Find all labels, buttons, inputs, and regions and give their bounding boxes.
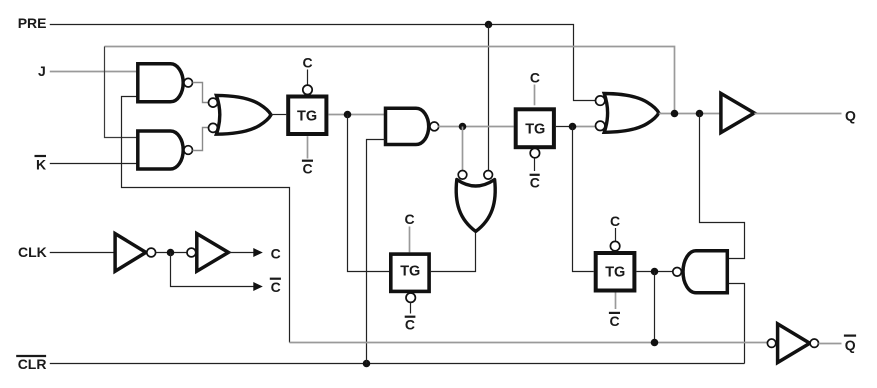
- wire Qbar internal node down to Qbar line: [654, 272, 656, 343]
- wire Qbar feedback into NAND1 bottom input: [122, 97, 290, 343]
- junction CLR node: [363, 360, 371, 368]
- svg-text:TG: TG: [605, 264, 625, 280]
- wire TG4 to NAND4 output node: [636, 271, 672, 273]
- svg-text:CLK: CLK: [18, 244, 47, 260]
- nand gate G4 (left facing): [683, 251, 727, 293]
- junction PRE node: [485, 21, 493, 29]
- svg-text:C: C: [271, 246, 281, 262]
- wire slave node down to TG4: [573, 127, 594, 272]
- wire CLK input: [50, 252, 115, 254]
- wire INV2 out to C arrow: [228, 252, 253, 254]
- svg-text:TG: TG: [525, 121, 545, 137]
- arrow C: [253, 248, 262, 257]
- wire PRE horizontal and down to NOR3 top input: [50, 25, 596, 101]
- svg-text:C: C: [405, 211, 415, 227]
- bubble NOR2 left input: [458, 171, 467, 180]
- svg-text:C: C: [530, 175, 540, 191]
- label Cbar below TG3: [530, 175, 540, 191]
- svg-text:C: C: [530, 70, 540, 86]
- junction master node: [344, 111, 352, 119]
- inverter INV1: [115, 234, 146, 272]
- label CLR: [16, 356, 46, 372]
- bubble NOR2 right input: [484, 171, 493, 180]
- wire G3 node down to NOR2 left input: [462, 127, 464, 171]
- wire G2 out to NOR1: [193, 128, 209, 151]
- svg-text:C: C: [303, 160, 313, 176]
- wire CLR line: [50, 363, 745, 365]
- bubble INV1 output: [147, 248, 156, 257]
- wire G3 out to TG3: [438, 126, 514, 128]
- wire clock node to Cbar arrow: [171, 253, 254, 287]
- wire C stub to TG3: [534, 85, 536, 106]
- transmission gate TG1: [288, 97, 326, 135]
- bubble TG1 control: [303, 85, 312, 94]
- svg-text:TG: TG: [400, 264, 420, 280]
- label Cbar clock: [270, 279, 281, 296]
- wire NOR2 out to TG2: [431, 233, 476, 272]
- svg-text:Q: Q: [845, 337, 856, 353]
- wire Qbar output line: [819, 343, 842, 345]
- bubble NAND4 output: [673, 268, 682, 277]
- wire Q output line: [754, 113, 841, 115]
- inverter INV3 Qbar: [778, 324, 810, 363]
- junction Q node A: [671, 110, 679, 118]
- junction Qbar line node: [651, 339, 659, 347]
- svg-text:J: J: [38, 63, 46, 79]
- wire C stub to TG2: [409, 227, 411, 253]
- svg-text:C: C: [303, 55, 313, 71]
- transmission gate TG3: [516, 109, 554, 147]
- svg-text:C: C: [610, 313, 620, 329]
- wire TG1 out to NAND3: [328, 114, 385, 116]
- nor gate NOR3: [604, 94, 659, 133]
- nand gate G2 (K input): [138, 131, 183, 169]
- wire Q feedback down into NAND2 top input: [105, 47, 138, 138]
- label Cbar below TG1: [302, 160, 313, 176]
- bubble Qbar inverter input: [767, 339, 775, 347]
- bubble NOR1 top input: [209, 98, 218, 107]
- wire CLR right end up to NAND4 input: [727, 284, 744, 364]
- svg-text:K: K: [36, 156, 46, 172]
- nor gate NOR2 (rotated down): [456, 180, 495, 232]
- svg-text:C: C: [271, 279, 281, 295]
- bubble TG3 control: [530, 148, 539, 157]
- nand gate G1 (J input): [138, 64, 183, 102]
- wire TG2 bubble stub: [410, 303, 412, 314]
- svg-text:C: C: [610, 213, 620, 229]
- bubble G1 output: [184, 78, 193, 87]
- wire G1 out to NOR1: [193, 83, 209, 103]
- bubble NOR3 top input: [596, 96, 605, 105]
- wire Qbar line (gray) to inverter: [290, 342, 768, 344]
- wire Q node down to NAND4 top input: [700, 114, 745, 259]
- bubble TG4 control: [610, 241, 619, 250]
- bubble NOR1 bottom input: [209, 123, 218, 132]
- label Cbar below TG4: [609, 313, 620, 329]
- nor gate NOR1: [216, 95, 271, 134]
- wire TG1 Cbar stub: [307, 136, 309, 158]
- junction slave node: [569, 123, 577, 131]
- wire TG3 out to NOR3: [556, 126, 573, 128]
- transmission gate TG4: [596, 253, 635, 291]
- junction clock node: [167, 249, 175, 257]
- wire NOR3 out to buffer: [659, 113, 721, 115]
- svg-text:Q: Q: [845, 108, 856, 124]
- svg-text:C: C: [405, 317, 415, 333]
- wire K input: [50, 163, 138, 165]
- bubble Qbar inverter output: [810, 339, 818, 347]
- label K-bar: [35, 156, 47, 172]
- wire Q feedback (gray) from Q node up and across: [105, 47, 675, 114]
- wire C stub to TG4 bubble: [615, 228, 617, 241]
- junction Q node B: [696, 110, 704, 118]
- inverter INV2: [197, 234, 229, 272]
- bubble TG2 control: [406, 293, 415, 302]
- bubble G3 output: [430, 122, 439, 131]
- wire TG3 bubble stub: [534, 158, 536, 171]
- junction G3 node: [459, 123, 467, 131]
- svg-text:TG: TG: [297, 109, 317, 125]
- wire TG4 Cbar stub: [615, 293, 617, 310]
- wire J input: [50, 71, 138, 73]
- label Qbar: [844, 336, 856, 353]
- nand gate G3 (master): [386, 108, 429, 144]
- svg-text:CLR: CLR: [18, 356, 47, 372]
- bubble G2 output: [184, 146, 193, 155]
- buffer Q output: [721, 93, 754, 132]
- wire PRE branch down to NOR2 right input: [488, 25, 490, 171]
- bubble NOR3 bottom input: [596, 121, 605, 130]
- wire master node down to TG2 input: [348, 115, 390, 272]
- label Cbar below TG2: [405, 317, 416, 333]
- transmission gate TG2: [391, 254, 429, 291]
- svg-text:PRE: PRE: [18, 15, 47, 31]
- wire NOR1 out to TG1: [271, 114, 286, 116]
- wire INV1 to INV2: [156, 252, 187, 254]
- wire C stub to TG1 bubble: [307, 70, 309, 86]
- arrow Cbar: [253, 282, 262, 291]
- junction Qbar internal node: [651, 268, 659, 276]
- bubble INV2 input: [187, 248, 196, 257]
- wire CLR up to NAND3 input: [367, 140, 386, 364]
